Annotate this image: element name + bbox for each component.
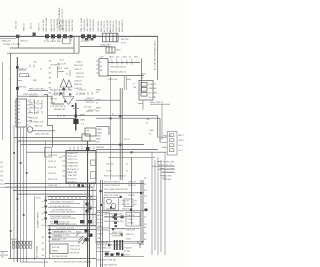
wire block left edge x34	[34, 196, 36, 260]
wire left edge tick lines	[0, 184, 5, 188]
svg-text:7: 7	[126, 59, 127, 61]
wire op-amp out right	[76, 99, 120, 101]
smudge near opamp	[60, 93, 74, 108]
wire bh y241	[48, 240, 80, 242]
svg-text:ACC RED: ACC RED	[149, 92, 158, 95]
label vcol a	[55, 89, 57, 96]
svg-text:MUTE SD Q: MUTE SD Q	[68, 169, 80, 171]
wire cross vert pair x120	[120, 88, 122, 180]
label comps col extra	[29, 96, 44, 124]
transistor Q805	[27, 127, 33, 133]
wire h y228	[110, 228, 141, 230]
cross junction dots	[110, 115, 133, 153]
wire tick y147	[96, 146, 104, 148]
wire bh y229	[48, 229, 96, 231]
svg-text:C84 47: C84 47	[55, 89, 57, 96]
wire bus y196	[48, 196, 93, 198]
wire top bus stub left	[0, 37, 16, 39]
wire power block pins	[52, 197, 80, 200]
wire ticks IC803 right	[29, 105, 33, 121]
wire left bus x13	[16, 57, 18, 262]
label block small y197	[36, 198, 41, 200]
wire drop x74	[73, 36, 75, 53]
wire bottom h y258	[8, 258, 96, 260]
svg-text:C952 47: C952 47	[122, 201, 130, 203]
box right R	[126, 213, 140, 227]
svg-text:C877 R8: C877 R8	[84, 100, 93, 102]
wire IC803 pins right	[27, 101, 30, 125]
wire corner x44 bottom	[44, 259, 46, 267]
label x96 col a	[96, 90, 102, 95]
svg-text:J2: J2	[112, 114, 114, 116]
wire h y157	[108, 157, 155, 159]
wire feed y147	[162, 146, 168, 148]
connector CN801	[103, 33, 119, 42]
wire IC806 pins top	[70, 147, 94, 151]
wire dark vert x88	[88, 141, 90, 267]
transformer T902 box	[50, 244, 68, 254]
box AC left 2	[96, 230, 110, 243]
label fence top mid2	[81, 17, 95, 31]
wire h y131	[33, 130, 55, 132]
wire vert pair x141 lower	[141, 180, 143, 245]
wire drop x158	[157, 36, 159, 80]
wire corner x157	[157, 116, 159, 138]
dark marks x114 y216	[113, 216, 124, 219]
svg-text:C93 D94 1S: C93 D94 1S	[112, 236, 124, 238]
label vcol c	[64, 90, 66, 96]
IC806 box	[66, 151, 96, 184]
svg-text:R819 22 C10: R819 22 C10	[90, 18, 92, 31]
label left ticks y252	[1, 253, 5, 259]
wire stair vert x90	[89, 194, 91, 225]
label in small box	[87, 131, 90, 137]
label right block low	[108, 79, 132, 81]
label above y96	[23, 94, 38, 96]
svg-text:R812 1K 1/4W: R812 1K 1/4W	[46, 18, 48, 32]
svg-text:C830 1: C830 1	[76, 62, 83, 64]
svg-text:C91 R92: C91 R92	[106, 164, 113, 166]
junction x88 y148	[86, 147, 89, 150]
wire h y140	[17, 140, 96, 142]
capacitor bank on bus	[45, 34, 73, 38]
label bh row2	[56, 228, 75, 230]
label center extra rows	[50, 99, 58, 109]
svg-text:10K 1/4W C2: 10K 1/4W C2	[122, 19, 124, 32]
svg-text:Q955 R956 2SD 470: Q955 R956 2SD 470	[104, 213, 123, 215]
svg-text:R864 220: R864 220	[29, 118, 39, 120]
wire vert x45	[45, 141, 47, 258]
svg-text:C823 33 10V: C823 33 10V	[107, 19, 109, 32]
svg-text:R871 C872 R873 IC805: R871 C872 R873 IC805	[50, 90, 73, 92]
svg-text:R921 C922 D923 10K 47: R921 C922 D923 10K 47	[104, 176, 127, 178]
wire stairs lower ticks	[157, 162, 164, 173]
wire h y90 left	[28, 89, 48, 91]
wire stair vert x93	[92, 187, 94, 225]
svg-text:C944 47 R945 2K: C944 47 R945 2K	[104, 185, 121, 187]
label above bh rows	[56, 224, 77, 226]
wire drop x79	[78, 36, 80, 53]
dots dense	[100, 190, 143, 211]
svg-text:SYN CTL 5: SYN CTL 5	[68, 159, 79, 161]
svg-text:10K 25V C33: 10K 25V C33	[51, 18, 53, 31]
transistor Q948	[106, 199, 116, 209]
wire h y207	[48, 207, 96, 209]
label IC806 left col	[48, 155, 58, 187]
svg-text:R877 68: R877 68	[86, 102, 94, 104]
label fence top mid	[43, 18, 74, 32]
label pin column x49	[49, 61, 52, 95]
label J802	[116, 50, 121, 52]
svg-text:C811 47 16V: C811 47 16V	[43, 19, 45, 32]
svg-text:R851 4.7K C852: R851 4.7K C852	[29, 88, 45, 90]
wire right block h2	[108, 75, 144, 77]
svg-text:C813 47 10V: C813 47 10V	[54, 19, 56, 32]
svg-text:D801 1S: D801 1S	[76, 77, 84, 79]
svg-text:R822 10 1/4: R822 10 1/4	[101, 20, 103, 32]
wire left vert x49	[49, 225, 51, 259]
label Q805	[35, 134, 50, 136]
label IC803 right comps2	[34, 122, 44, 128]
connector CN803	[167, 132, 177, 156]
wire tick y80	[17, 80, 22, 82]
svg-text:IF CNT IN: IF CNT IN	[68, 178, 78, 180]
svg-text:C874 47: C874 47	[78, 90, 87, 92]
label IC802 inner	[100, 62, 103, 72]
svg-text:D95 R96 C97: D95 R96 C97	[96, 242, 109, 244]
wire comp ticks on h1	[112, 61, 132, 65]
wire h y216s	[104, 216, 140, 218]
label row below bus mid	[44, 41, 90, 43]
svg-text:C816 22 16V: C816 22 16V	[72, 19, 74, 32]
wire right fan vC	[160, 160, 162, 252]
wire IC806 pins bottom	[70, 183, 94, 187]
label right y136	[163, 136, 173, 138]
svg-text:SP RH+ GRY: SP RH+ GRY	[163, 161, 175, 163]
svg-text:GND 2: GND 2	[179, 140, 185, 142]
label between rows	[57, 64, 67, 66]
label row y234 mid	[110, 234, 121, 236]
wire corner B y53	[7, 52, 79, 54]
wire faint h y262	[20, 261, 48, 263]
svg-text:2A D8: 2A D8	[98, 225, 103, 228]
box small x45	[45, 148, 52, 158]
svg-text:R801 220: R801 220	[2, 41, 12, 43]
svg-text:R806 22: R806 22	[24, 23, 26, 31]
wire h y143	[21, 143, 145, 145]
label block pins left	[42, 201, 45, 227]
svg-text:R981-6: R981-6	[11, 239, 18, 241]
wire left fan v3	[23, 127, 25, 262]
svg-text:SP RH- BLK: SP RH- BLK	[163, 165, 174, 167]
label bott right extra2	[124, 247, 133, 256]
label dense row2	[104, 185, 136, 187]
diode D980 symbol	[137, 241, 143, 248]
box dense trans	[104, 198, 119, 211]
label mid cluster num	[66, 74, 68, 76]
label right ticks bottom	[144, 227, 147, 241]
svg-text:R87 C84 10: R87 C84 10	[55, 106, 67, 108]
svg-text:1K5 47: 1K5 47	[31, 22, 33, 29]
label under corner	[55, 106, 67, 108]
svg-text:AC 120V 60Hz PT: AC 120V 60Hz PT	[100, 264, 118, 267]
wire corner x160	[159, 118, 161, 142]
svg-text:R835 68: R835 68	[74, 84, 82, 86]
label right y130	[149, 130, 155, 136]
svg-text:DO CE CL: DO CE CL	[68, 181, 78, 183]
box corner bottom mid	[96, 126, 109, 135]
junction cluster x88 y204	[86, 203, 92, 213]
svg-text:47: 47	[40, 68, 42, 70]
wire h y96	[18, 95, 48, 97]
wire stairs marks	[160, 176, 166, 179]
label right tick col	[144, 178, 147, 226]
fan junction dots	[10, 152, 28, 232]
box small x82	[82, 134, 90, 141]
label T902 inner	[52, 247, 60, 253]
label bottom rows right	[96, 248, 121, 267]
label mid text right rows	[74, 62, 84, 91]
wire bus y183	[5, 183, 144, 185]
svg-text:R9 C9: R9 C9	[124, 139, 129, 141]
svg-text:R87 C8: R87 C8	[50, 99, 58, 101]
svg-text:B+ 3: B+ 3	[179, 145, 183, 147]
wire route x47	[44, 95, 53, 147]
cap chain marks	[114, 214, 117, 228]
wire feed y166	[152, 165, 175, 167]
svg-text:C961 470: C961 470	[126, 230, 136, 232]
label fence top right	[98, 19, 124, 32]
svg-text:4.7K: 4.7K	[26, 76, 31, 78]
svg-text:1K0 25V R22: 1K0 25V R22	[69, 18, 71, 31]
box in IC806 right b	[91, 172, 96, 179]
resistor row on fan b	[12, 246, 32, 249]
label extra vert x25	[24, 23, 26, 31]
marks under bus right	[85, 38, 94, 40]
wire right fan vA	[151, 153, 153, 256]
svg-text:R82: R82	[33, 80, 36, 82]
wire bus y199	[48, 199, 96, 201]
svg-text:47 1K 10K 47 220 10: 47 1K 10K 47 220 10	[44, 41, 64, 43]
dark tick right col	[145, 209, 148, 212]
wire vert pair x124	[124, 76, 126, 90]
wire h y46 right	[80, 46, 111, 48]
label left of box small	[59, 157, 63, 159]
svg-text:10V 1/8W R47: 10V 1/8W R47	[87, 17, 89, 31]
svg-text:XTAL 75K: XTAL 75K	[68, 174, 78, 177]
svg-text:C8 R8: C8 R8	[37, 104, 44, 106]
wire h y210	[96, 210, 144, 212]
label dense row4	[104, 195, 136, 197]
wire h y136	[14, 137, 82, 139]
dots bottom right	[108, 228, 123, 246]
wire corner y96 mid	[48, 96, 64, 104]
label IC806 inner rows	[68, 153, 80, 184]
label col x42 bits	[42, 237, 45, 257]
label bott row 245	[96, 245, 120, 247]
label x96 col c	[96, 108, 102, 113]
label rot col x38	[36, 245, 39, 258]
wire stair vert x84	[83, 200, 85, 225]
label right block row y57	[100, 57, 137, 59]
svg-text:D954 1S: D954 1S	[122, 208, 130, 210]
svg-text:4K7 25V C3: 4K7 25V C3	[104, 20, 106, 32]
svg-text:3: 3	[116, 59, 117, 61]
svg-text:47 1K: 47 1K	[37, 108, 43, 110]
svg-text:TRANS: TRANS	[52, 250, 59, 253]
svg-text:Q986 R987 C988 2A: Q986 R987 C988 2A	[96, 259, 116, 262]
label tall column x60	[58, 7, 64, 30]
svg-text:ANT 1: ANT 1	[179, 134, 184, 137]
svg-text:VR1 2.2K: VR1 2.2K	[57, 64, 67, 66]
wire left bus x2	[1, 62, 3, 140]
svg-text:PT 2A: PT 2A	[124, 250, 130, 253]
svg-text:AM: AM	[17, 118, 20, 121]
svg-text:9: 9	[131, 59, 132, 61]
svg-text:4.7 100 0.01 2SC 25V: 4.7 100 0.01 2SC 25V	[50, 206, 70, 208]
label below CN801	[100, 44, 111, 46]
svg-text:C834 10: C834 10	[74, 80, 82, 82]
svg-text:Q934 D935 2SD1207 R936: Q934 D935 2SD1207 R936	[50, 218, 76, 220]
box in IC806 right a	[91, 160, 96, 166]
wire right bus x141 upper	[140, 59, 142, 93]
transformer T903 core bars	[115, 240, 123, 250]
label CN803 rows	[179, 134, 185, 152]
wire left tick lines bottom	[0, 252, 8, 256]
label extra vert x40	[39, 23, 41, 31]
wire corner A y48	[10, 47, 74, 49]
resistor R822	[20, 74, 29, 77]
junction left y88	[16, 66, 19, 90]
svg-text:25V 1K: 25V 1K	[128, 222, 135, 224]
label right of T902	[52, 246, 81, 259]
svg-text:C981 R982 0.01: C981 R982 0.01	[96, 248, 112, 250]
svg-text:0.022: 0.022	[64, 90, 66, 96]
label right small y72	[141, 74, 147, 80]
svg-text:PW: PW	[133, 87, 136, 89]
svg-text:D931 R932 C933 Q934 T9: D931 R932 C933 Q934 T9	[50, 202, 75, 204]
svg-text:IN C4: IN C4	[98, 219, 103, 221]
wire vert x110	[110, 76, 112, 180]
svg-text:C957 100 R958 25V: C957 100 R958 25V	[104, 217, 123, 219]
wire feed vert x165	[164, 152, 166, 255]
svg-text:B+ 13.8V REG SW B802 2A FU: B+ 13.8V REG SW B802 2A FU	[153, 40, 156, 70]
label right mid x146	[146, 119, 149, 125]
diode diag strokes	[76, 233, 87, 241]
svg-text:FM/AM SW: FM/AM SW	[68, 161, 78, 164]
svg-text:0.01: 0.01	[60, 60, 64, 62]
label power rows extra2	[52, 210, 73, 212]
wire right vert x162	[161, 104, 163, 140]
box AC left	[96, 213, 110, 229]
wire main top bus	[0, 35, 158, 37]
svg-text:C880: C880	[80, 120, 86, 122]
wire IC803 pins left	[14, 102, 16, 122]
svg-text:LA4282 25V: LA4282 25V	[54, 108, 66, 111]
wire tick y103	[138, 103, 143, 105]
wire h pair y150	[27, 150, 166, 153]
svg-text:REC D9: REC D9	[128, 215, 135, 217]
wire tick on x76	[73, 107, 79, 109]
svg-text:KEY BOARD: KEY BOARD	[36, 245, 39, 258]
svg-text:GND BLK: GND BLK	[149, 88, 158, 90]
svg-text:SP LH- BLU: SP LH- BLU	[163, 172, 174, 174]
wire bh y233	[48, 232, 90, 234]
wire h y192	[104, 192, 144, 194]
svg-text:R946 47: R946 47	[128, 185, 136, 187]
label under opamp	[54, 108, 66, 111]
svg-text:47: 47	[126, 164, 128, 166]
wire stair vert x87	[86, 197, 88, 225]
label x96 col b	[96, 100, 102, 105]
svg-text:D96 C7: D96 C7	[128, 219, 134, 221]
svg-text:C912 47: C912 47	[48, 161, 57, 163]
svg-text:D916 C917 220: D916 C917 220	[52, 238, 67, 240]
svg-text:R817 47 1/4W: R817 47 1/4W	[81, 18, 83, 31]
label at cross y141	[124, 139, 129, 141]
svg-text:R950 220 C951: R950 220 C951	[104, 195, 119, 197]
wire h y214	[48, 214, 96, 216]
label x96 col y135	[96, 136, 102, 144]
svg-text:R843 220 C844 10: R843 220 C844 10	[110, 72, 126, 74]
svg-text:R826 22 R1: R826 22 R1	[119, 20, 121, 32]
box dense right	[124, 199, 133, 207]
label stairs lower rows	[163, 161, 175, 181]
svg-text:15 PLL FS: 15 PLL FS	[68, 156, 78, 158]
label dense right col	[122, 201, 138, 211]
capacitor bank on bus 2	[81, 34, 96, 38]
svg-text:C818 33 16V: C818 33 16V	[84, 19, 86, 32]
junction top left	[16, 33, 36, 39]
connector CN802	[139, 81, 153, 101]
label dense row6	[104, 217, 123, 219]
label bh row5	[52, 240, 60, 242]
label at cross y112	[112, 114, 114, 116]
wire h y118	[48, 117, 76, 119]
svg-text:R977 4.7 C978 470 D979 C980 Q9: R977 4.7 C978 470 D979 C980 Q981 100	[54, 262, 92, 264]
wire right block h1	[108, 62, 140, 64]
label block rot left	[38, 211, 40, 228]
svg-text:AC R9: AC R9	[98, 214, 104, 217]
wire feed y172	[161, 171, 175, 173]
wire transistor drop	[64, 87, 70, 90]
wire h y251	[96, 251, 110, 253]
wire vert pair x101	[100, 180, 102, 267]
label center row y94	[52, 94, 86, 96]
label right block mid	[110, 67, 126, 69]
wire feed y152	[165, 151, 168, 153]
svg-text:5: 5	[121, 59, 122, 61]
label above y118	[57, 115, 66, 118]
svg-text:C803 47: C803 47	[20, 41, 28, 43]
label left edge ticks	[1, 162, 4, 182]
svg-text:CN801 8P: CN801 8P	[100, 44, 111, 46]
wire tick y70	[17, 69, 26, 71]
wire left fan v4	[26, 127, 28, 262]
label box corner	[97, 129, 103, 135]
label bh row4	[54, 236, 62, 238]
svg-text:R96 C97 100 D98 47 25V: R96 C97 100 D98 47 25V	[96, 245, 120, 247]
svg-text:100 16V C4: 100 16V C4	[113, 20, 115, 32]
wire comps col marks	[30, 99, 42, 114]
label mid y64	[50, 65, 60, 67]
label opamp bits	[62, 95, 72, 100]
svg-text:TP W01 4.7K C805: TP W01 4.7K C805	[3, 44, 21, 46]
svg-text:73: 73	[66, 74, 68, 76]
label dense row3	[104, 189, 129, 191]
svg-text:BAND SEL: BAND SEL	[68, 171, 79, 174]
label R822	[26, 76, 31, 78]
